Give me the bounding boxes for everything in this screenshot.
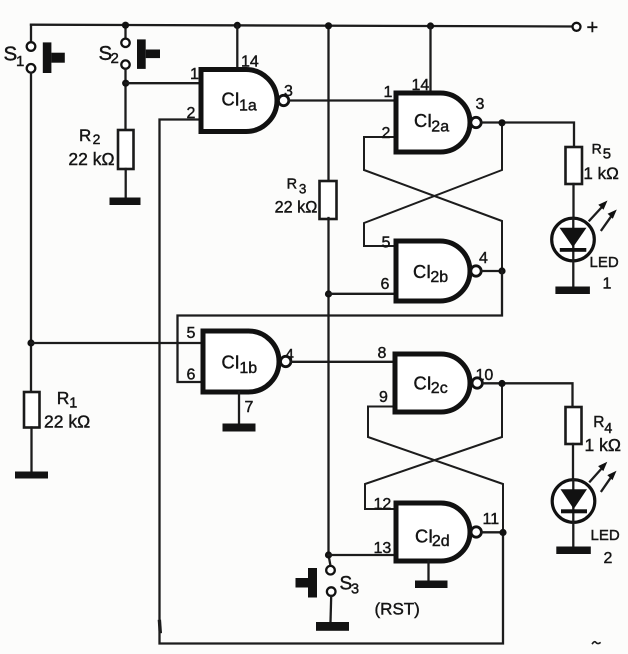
svg-text:R: R bbox=[57, 388, 70, 408]
svg-text:22 kΩ: 22 kΩ bbox=[275, 199, 318, 217]
wire: stray scan squiggle bottom right bbox=[593, 642, 601, 644]
LED LED2 bbox=[552, 480, 620, 567]
svg-text:2: 2 bbox=[111, 50, 119, 67]
ground below CI2d bbox=[415, 581, 448, 589]
wire: CI2b output down-left to CI1b pins 5/6 bracket bbox=[178, 271, 503, 382]
svg-text:2: 2 bbox=[93, 131, 101, 147]
svg-text:LED: LED bbox=[590, 254, 619, 271]
svg-text:+: + bbox=[587, 17, 599, 39]
svg-text:2: 2 bbox=[382, 125, 391, 142]
wire: CI2c pin9 to CI2d output (cross-couple) bbox=[368, 407, 503, 533]
svg-text:9: 9 bbox=[379, 389, 388, 406]
wire: CI1a pin2 feedback from CI2d output (left,down,bottom,right,up) bbox=[160, 120, 504, 644]
op-amp U: NAND gate CI1b bbox=[203, 331, 279, 392]
output bubble CI1a bbox=[278, 95, 288, 105]
wire: CI2c output to R4 bbox=[482, 383, 572, 407]
wire: rail drop to S2 bbox=[124, 25, 126, 39]
op-amp U: NAND gate CI2b bbox=[396, 241, 470, 301]
wire: CI2d pin12 to CI2c output (cross-couple) bbox=[365, 384, 502, 510]
wire: R3 down to S3 bbox=[329, 218, 331, 566]
node junction S3/CI2d pin13 bbox=[325, 551, 332, 558]
svg-text:1: 1 bbox=[16, 53, 24, 70]
wire: R4 to LED2 bbox=[572, 444, 574, 480]
wire: pin14 drop CI2a bbox=[429, 26, 431, 93]
op-amp U: NAND gate CI2c bbox=[395, 354, 470, 412]
svg-text:2a: 2a bbox=[431, 118, 449, 135]
LED LED1 bbox=[552, 218, 619, 292]
svg-text:1: 1 bbox=[384, 84, 393, 101]
svg-text:R: R bbox=[287, 177, 297, 193]
wire: S1 down to R1 bbox=[30, 73, 32, 392]
wire: CI2d pin13 feed bbox=[329, 554, 397, 556]
output bubble CI2c bbox=[472, 378, 482, 388]
ground below LED2 bbox=[556, 547, 591, 555]
output bubble CI1b bbox=[281, 356, 291, 366]
wire: CI2d output stub bbox=[481, 531, 503, 533]
wire: CI2a output to R5 bbox=[481, 123, 574, 148]
svg-text:R: R bbox=[592, 140, 602, 156]
wire: scan blob artifact on feedback line bbox=[158, 622, 162, 632]
svg-text:3: 3 bbox=[299, 181, 307, 196]
ground below CI1b pin7 bbox=[223, 424, 256, 432]
wire: top supply rail bbox=[31, 25, 576, 27]
svg-text:3: 3 bbox=[351, 582, 359, 598]
node: + supply terminal bbox=[573, 17, 599, 39]
wire: CI2a pin2 to CI2b output (cross-couple) bbox=[364, 137, 502, 271]
svg-text:5: 5 bbox=[187, 325, 196, 342]
svg-text:7: 7 bbox=[245, 399, 254, 416]
svg-text:CI: CI bbox=[414, 374, 432, 394]
svg-text:CI: CI bbox=[415, 526, 433, 546]
svg-text:CI: CI bbox=[413, 262, 431, 282]
svg-text:2d: 2d bbox=[432, 533, 450, 550]
switch S1 bbox=[4, 42, 65, 73]
svg-text:1b: 1b bbox=[239, 360, 257, 377]
svg-text:2c: 2c bbox=[431, 380, 448, 397]
svg-text:1 kΩ: 1 kΩ bbox=[583, 164, 618, 183]
svg-text:(RST): (RST) bbox=[375, 600, 420, 619]
output bubble CI2b bbox=[471, 266, 481, 276]
resistor R2 bbox=[68, 126, 133, 169]
svg-text:LED: LED bbox=[591, 527, 620, 544]
op-amp U: NAND gate CI2d bbox=[396, 503, 470, 561]
svg-text:1: 1 bbox=[603, 276, 612, 293]
svg-text:CI: CI bbox=[414, 111, 432, 131]
wire: R2 to ground bbox=[125, 169, 127, 198]
svg-text:4: 4 bbox=[479, 250, 488, 267]
svg-text:R: R bbox=[79, 126, 91, 145]
wire: S3 to ground bbox=[329, 596, 332, 622]
svg-text:3: 3 bbox=[476, 96, 485, 113]
wire: R5 to LED1 bbox=[572, 184, 574, 218]
svg-text:12: 12 bbox=[374, 496, 392, 513]
node junction CI2a output bbox=[498, 119, 505, 126]
wire: CI1a pin1 feed bbox=[126, 82, 201, 84]
svg-text:1: 1 bbox=[190, 66, 199, 83]
svg-text:13: 13 bbox=[374, 540, 392, 557]
ground below R2 bbox=[110, 198, 141, 206]
switch S3 bbox=[296, 566, 360, 598]
wire: rail drop to S1 bbox=[30, 25, 32, 43]
svg-text:11: 11 bbox=[483, 511, 500, 528]
ground below S3 bbox=[316, 622, 349, 631]
resistor R3 bbox=[275, 177, 337, 219]
svg-text:2: 2 bbox=[187, 105, 196, 122]
resistor R5 bbox=[566, 140, 619, 184]
wire: CI1b pin5 feed bbox=[31, 342, 203, 344]
svg-text:CI: CI bbox=[222, 90, 240, 110]
wire: S2 to junction bbox=[124, 69, 126, 130]
svg-text:CI: CI bbox=[222, 352, 240, 372]
ground below R1 bbox=[15, 472, 48, 479]
wire: pin14 drop CI1a bbox=[236, 25, 238, 69]
wire: CI1a output to CI2a pin1 bbox=[289, 99, 396, 101]
node: rail junction at S2 bbox=[122, 22, 129, 29]
wire: CI2b output stub bbox=[481, 270, 502, 272]
wire: CI1b output to CI2c pin8 bbox=[291, 361, 395, 363]
svg-text:6: 6 bbox=[187, 367, 196, 384]
svg-text:1 kΩ: 1 kΩ bbox=[585, 435, 621, 455]
node junction CI2c output bbox=[498, 380, 505, 387]
svg-text:22 kΩ: 22 kΩ bbox=[44, 412, 90, 432]
wire: CI2b pin5 to CI2a output (cross-couple) bbox=[364, 123, 502, 246]
svg-text:2b: 2b bbox=[430, 269, 448, 286]
svg-text:8: 8 bbox=[378, 345, 387, 362]
svg-text:2: 2 bbox=[604, 550, 613, 567]
node junction R3/CI2b pin6 bbox=[325, 290, 332, 297]
svg-text:22 kΩ: 22 kΩ bbox=[68, 149, 114, 169]
node: rail junction at CI1a pin14 bbox=[234, 22, 241, 29]
svg-text:1a: 1a bbox=[239, 98, 257, 115]
output bubble CI2d bbox=[471, 527, 481, 537]
switch S2 bbox=[99, 39, 161, 69]
ground below LED1 bbox=[555, 287, 590, 295]
output bubble CI2a bbox=[471, 117, 481, 127]
svg-text:1: 1 bbox=[69, 395, 77, 411]
node junction CI2d output bbox=[499, 529, 506, 536]
svg-text:R: R bbox=[593, 414, 604, 431]
arrows LED1 bbox=[590, 201, 617, 231]
node junction S2/R2/pin1 bbox=[122, 80, 129, 87]
resistor R4 bbox=[566, 407, 621, 455]
arrows LED2 bbox=[590, 462, 617, 491]
wire: rail drop to R3 bbox=[327, 26, 329, 182]
wire: CI2b pin6 feed bbox=[329, 293, 397, 295]
wire: CI1b pin7 to ground bbox=[238, 392, 240, 424]
svg-text:6: 6 bbox=[381, 276, 390, 293]
node: rail junction at R3 bbox=[325, 22, 332, 29]
op-amp U: NAND gate CI2a bbox=[396, 93, 470, 152]
node junction at R1/pin5 bbox=[27, 339, 34, 346]
svg-text:5: 5 bbox=[382, 235, 391, 252]
wire: CI2d pin7 to ground bbox=[427, 561, 429, 581]
resistor R1 bbox=[24, 388, 90, 431]
svg-text:5: 5 bbox=[603, 145, 611, 162]
node: rail junction at CI2a pin14 bbox=[427, 22, 434, 29]
node junction CI2b output bbox=[498, 267, 505, 274]
op-amp U: NAND gate CI1a bbox=[201, 70, 277, 132]
wire: R1 to ground bbox=[30, 428, 32, 472]
